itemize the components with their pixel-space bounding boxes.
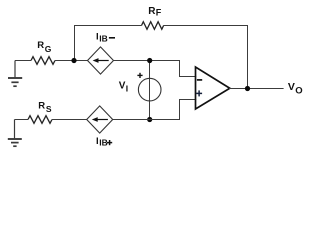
- svg-text:G: G: [45, 44, 52, 54]
- wire: feedback loop top and verticals: [75, 26, 248, 89]
- svg-text:S: S: [46, 104, 52, 114]
- svg-text:F: F: [156, 8, 162, 18]
- svg-text:V: V: [119, 81, 126, 92]
- op-amp inverting input minus sign: [197, 79, 202, 81]
- resistor RF: [142, 22, 164, 30]
- voltage source VI (circle): [138, 78, 161, 101]
- arrow inside IIB-: [98, 60, 109, 62]
- op-amp noninverting input plus sign: [196, 90, 202, 96]
- ground (bottom left): [8, 120, 22, 147]
- svg-text:O: O: [295, 86, 302, 97]
- svg-text:IB: IB: [99, 138, 108, 148]
- wire: IIB+ to corner below op-amp plus: [113, 100, 197, 120]
- wire: IIB- to corner above op-amp minus: [114, 61, 197, 77]
- op-amp U1 (triangle): [196, 67, 230, 109]
- plus polarity mark of VI: [137, 73, 142, 78]
- svg-text:I: I: [96, 136, 99, 147]
- svg-text:IB: IB: [99, 34, 108, 44]
- svg-text:R: R: [37, 40, 44, 51]
- wire: op-amp output to VO: [229, 88, 284, 90]
- node: VI bottom junction: [147, 117, 152, 122]
- svg-text:V: V: [288, 81, 295, 93]
- resistor RS: [28, 116, 52, 124]
- svg-text:I: I: [126, 84, 128, 94]
- node: VI top junction: [147, 58, 152, 63]
- svg-text:I: I: [96, 32, 99, 43]
- current source IIB- (diamond): [88, 47, 114, 74]
- wire: ground to RG: [15, 60, 31, 62]
- wire: bottom ground to RS: [15, 119, 29, 121]
- node: output junction: [245, 86, 250, 91]
- current source IIB+ (diamond): [87, 106, 113, 133]
- wire: vertical through VI source: [149, 61, 151, 120]
- svg-text:R: R: [38, 100, 45, 111]
- ground (top left): [8, 61, 22, 87]
- wire: RG to current source IIB-: [55, 60, 88, 62]
- node: RG junction: [71, 58, 76, 63]
- wire: RS to current source IIB+: [52, 119, 87, 121]
- arrow inside IIB+: [97, 119, 108, 121]
- resistor RG: [31, 57, 55, 65]
